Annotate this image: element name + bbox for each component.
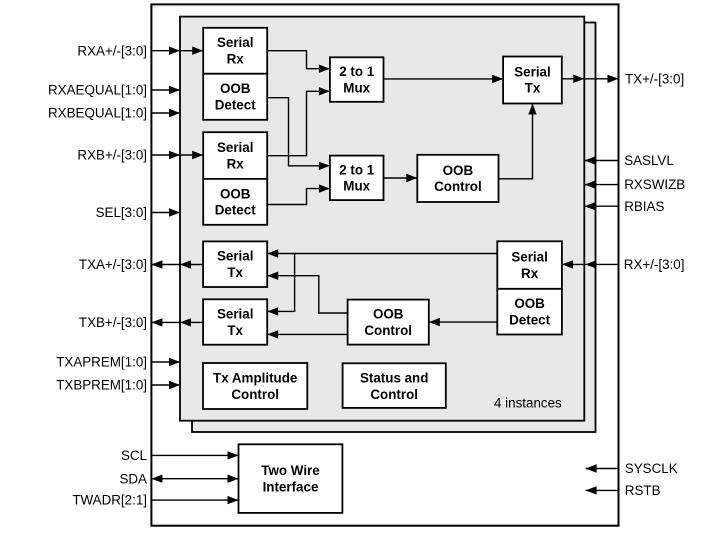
block Serial Tx L2 bbox=[203, 299, 267, 344]
svg-text:Serial: Serial bbox=[217, 140, 253, 155]
svg-text:OOB: OOB bbox=[373, 307, 404, 322]
block OOB Control 1 bbox=[417, 155, 498, 202]
wire W1 SerialRx1 to Mux1 in1 bbox=[267, 51, 330, 69]
wire SASLVL row bbox=[585, 160, 619, 162]
wire TXB row bbox=[151, 321, 203, 323]
svg-text:OOB: OOB bbox=[220, 81, 251, 96]
block OOB Control 2 bbox=[348, 300, 429, 345]
svg-text:TXB+/-[3:0]: TXB+/-[3:0] bbox=[79, 315, 147, 330]
svg-text:Detect: Detect bbox=[215, 98, 256, 113]
wire RXAEQUAL row bbox=[151, 89, 180, 91]
svg-text:Control: Control bbox=[370, 387, 418, 402]
svg-text:Rx: Rx bbox=[227, 52, 245, 67]
block Tx Amplitude Control bbox=[203, 363, 307, 409]
svg-text:Tx: Tx bbox=[227, 265, 243, 280]
svg-text:OOB: OOB bbox=[220, 186, 251, 201]
wire W9 OOB Control 2 to Serial Tx L1 in2 bbox=[267, 276, 347, 313]
svg-text:Control: Control bbox=[231, 387, 279, 402]
svg-text:Two Wire: Two Wire bbox=[261, 463, 319, 478]
svg-text:Detect: Detect bbox=[215, 203, 256, 218]
wire TWADR row bbox=[151, 499, 238, 501]
block Serial Rx / OOB Detect 2 bbox=[203, 132, 267, 225]
wire RXA row bbox=[151, 50, 203, 52]
outer chip boundary box bbox=[151, 4, 618, 525]
wire W3 OOBDetect1 to Mux2 in1 bbox=[267, 98, 330, 166]
svg-text:Status and: Status and bbox=[360, 370, 428, 385]
block Serial Rx / OOB Detect 1 bbox=[203, 28, 267, 120]
front instance rectangle (4 instances) bbox=[180, 17, 584, 421]
wire W10 OOB Control 2 to Serial Tx L2 in2 bbox=[267, 333, 347, 335]
svg-text:Control: Control bbox=[434, 179, 482, 194]
svg-text:RBIAS: RBIAS bbox=[624, 199, 664, 214]
block Serial Tx R bbox=[503, 57, 562, 104]
wire W2 SerialRx2 to Mux1 in2 bbox=[267, 91, 330, 155]
svg-text:Mux: Mux bbox=[343, 179, 370, 194]
wire TXBPREM row bbox=[151, 384, 180, 386]
wire TX output row bbox=[562, 78, 619, 80]
block Serial Tx L1 bbox=[203, 241, 267, 287]
svg-text:RXSWIZB: RXSWIZB bbox=[624, 177, 685, 192]
svg-text:Serial: Serial bbox=[217, 35, 253, 50]
svg-text:2 to 1: 2 to 1 bbox=[339, 162, 375, 177]
block Two Wire Interface bbox=[239, 444, 343, 513]
wire W7 OOB Control 1 up to Serial Tx right bbox=[499, 104, 533, 179]
svg-text:SCL: SCL bbox=[121, 448, 147, 463]
wire SCL row bbox=[151, 454, 238, 456]
wire TXA row bbox=[151, 264, 203, 266]
wire TXAPREM row bbox=[151, 361, 180, 363]
svg-text:Serial: Serial bbox=[217, 307, 253, 322]
svg-text:RXB+/-[3:0]: RXB+/-[3:0] bbox=[77, 148, 147, 163]
wire RBIAS row bbox=[585, 205, 619, 207]
block 2 to 1 Mux 1 bbox=[330, 57, 384, 102]
svg-text:SEL[3:0]: SEL[3:0] bbox=[96, 205, 147, 220]
svg-text:SASLVL: SASLVL bbox=[624, 153, 674, 168]
svg-text:Serial: Serial bbox=[511, 250, 547, 265]
wire SEL row bbox=[151, 212, 180, 214]
svg-text:TXBPREM[1:0]: TXBPREM[1:0] bbox=[56, 378, 147, 393]
svg-text:2 to 1: 2 to 1 bbox=[339, 64, 375, 79]
svg-text:Rx: Rx bbox=[227, 156, 245, 171]
svg-text:Rx: Rx bbox=[521, 266, 539, 281]
svg-text:RXBEQUAL[1:0]: RXBEQUAL[1:0] bbox=[48, 106, 147, 121]
wire RSTB row bbox=[586, 489, 619, 491]
block Status and Control bbox=[343, 363, 446, 408]
svg-text:4 instances: 4 instances bbox=[494, 396, 562, 411]
wire RXSWIZB row bbox=[585, 184, 619, 186]
svg-text:RXA+/-[3:0]: RXA+/-[3:0] bbox=[77, 43, 147, 58]
svg-text:SYSCLK: SYSCLK bbox=[625, 461, 678, 476]
svg-text:Tx Amplitude: Tx Amplitude bbox=[213, 370, 297, 385]
wire W8 Serial Rx R to Serial Tx L1 with branch to Serial Tx L2 bbox=[267, 253, 497, 255]
svg-text:TWADR[2:1]: TWADR[2:1] bbox=[72, 493, 147, 508]
svg-text:RSTB: RSTB bbox=[625, 483, 661, 498]
wire RXB row bbox=[151, 154, 203, 156]
svg-text:SDA: SDA bbox=[119, 471, 147, 486]
svg-text:Serial: Serial bbox=[217, 249, 253, 264]
wire RXBEQUAL row bbox=[151, 112, 180, 114]
svg-text:Control: Control bbox=[364, 323, 412, 338]
wire W11 OOB Detect R to OOB Control 2 bbox=[429, 321, 498, 323]
block 2 to 1 Mux 2 bbox=[330, 156, 384, 201]
wire SYSCLK row bbox=[586, 468, 619, 470]
svg-text:Mux: Mux bbox=[343, 80, 370, 95]
wire W6 Mux2 out to OOB Control 1 bbox=[384, 177, 418, 179]
svg-text:OOB: OOB bbox=[443, 163, 474, 178]
svg-text:Tx: Tx bbox=[227, 323, 243, 338]
wire W4 OOBDetect2 to Mux2 in2 bbox=[267, 189, 330, 205]
block Serial Rx / OOB Detect R bbox=[497, 241, 562, 334]
wire SDA row bbox=[151, 478, 238, 480]
wire RX input row bbox=[562, 263, 619, 265]
svg-text:TXAPREM[1:0]: TXAPREM[1:0] bbox=[56, 355, 147, 370]
svg-text:TXA+/-[3:0]: TXA+/-[3:0] bbox=[79, 257, 147, 272]
svg-text:Tx: Tx bbox=[525, 81, 541, 96]
svg-text:RXAEQUAL[1:0]: RXAEQUAL[1:0] bbox=[48, 83, 147, 98]
back stacked instance rectangle bbox=[192, 23, 596, 433]
svg-text:Interface: Interface bbox=[263, 479, 319, 494]
svg-text:Serial: Serial bbox=[514, 64, 550, 79]
svg-text:RX+/-[3:0]: RX+/-[3:0] bbox=[624, 257, 685, 272]
wire W5 Mux1 out to SerialTx right bbox=[384, 78, 504, 80]
svg-text:OOB: OOB bbox=[514, 296, 545, 311]
svg-text:TX+/-[3:0]: TX+/-[3:0] bbox=[625, 71, 684, 86]
svg-text:Detect: Detect bbox=[509, 313, 550, 328]
